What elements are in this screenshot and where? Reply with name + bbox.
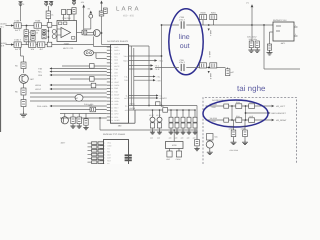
connector PHOENIX pin 7 xyxy=(100,160,104,162)
resistor R200 xyxy=(200,11,207,19)
wire op-amp out xyxy=(77,32,83,34)
ground xyxy=(186,130,191,134)
svg-text:HS_RIGHT: HS_RIGHT xyxy=(276,119,287,122)
svg-text:VD5: VD5 xyxy=(114,62,118,65)
connector J100 pin 20 xyxy=(107,106,111,108)
ground xyxy=(168,130,173,134)
wire xyxy=(23,95,25,100)
capacitor C108 xyxy=(31,36,35,41)
connector J100 pin 6 xyxy=(107,62,111,64)
wire n101 xyxy=(30,100,107,102)
resistor R140 xyxy=(90,64,95,69)
svg-text:LED-B: LED-B xyxy=(35,84,42,87)
wire out right xyxy=(264,68,300,70)
resistor array row 2 xyxy=(88,146,92,148)
wire xyxy=(100,32,101,34)
svg-text:7050T: 7050T xyxy=(64,43,71,46)
resistor R201 xyxy=(210,11,217,19)
svg-text:PHOENIX CTO FRAME: PHOENIX CTO FRAME xyxy=(103,133,126,136)
supply arrow P5 xyxy=(89,11,92,14)
svg-text:MIC+: MIC+ xyxy=(114,106,118,109)
svg-text:7: 7 xyxy=(111,65,112,68)
resistor R106 xyxy=(62,10,66,15)
svg-text:5: 5 xyxy=(111,59,112,62)
capacitor C100 xyxy=(14,20,22,32)
svg-text:21: 21 xyxy=(111,110,113,113)
connector PHOENIX pin 1 xyxy=(100,142,104,144)
svg-text:BKG-HEADSET: BKG-HEADSET xyxy=(272,112,287,115)
connector J100 pin 9 xyxy=(107,71,111,73)
resistor array row 4 xyxy=(88,154,92,156)
wire xyxy=(45,44,94,46)
svg-text:line: line xyxy=(179,33,190,41)
supply arrow P6 xyxy=(100,1,103,4)
annotation ellipse line-out xyxy=(169,9,203,75)
ground xyxy=(70,124,75,128)
svg-text:C101 T: C101 T xyxy=(14,39,22,42)
resistor R104 xyxy=(103,8,107,14)
connector PHOENIX pin 3 xyxy=(100,148,104,150)
resistor stack 6 xyxy=(188,109,190,111)
resistor R100 xyxy=(34,20,41,32)
svg-text:7: 7 xyxy=(104,159,105,162)
connector J100 pin 3 xyxy=(107,52,111,54)
svg-text:5: 5 xyxy=(104,153,105,156)
wire xyxy=(99,118,101,130)
resistor R130 xyxy=(75,94,83,101)
svg-text:AGND: AGND xyxy=(114,119,120,122)
svg-text:2: 2 xyxy=(295,33,296,36)
node HS_LEFT xyxy=(272,105,275,108)
svg-text:out: out xyxy=(180,43,190,50)
svg-text:R09: R09 xyxy=(89,104,92,107)
wire xyxy=(23,83,25,88)
svg-text:470n 2: 470n 2 xyxy=(179,61,185,64)
ground xyxy=(157,130,162,134)
svg-text:R100: R100 xyxy=(35,20,41,23)
capacitor C106 xyxy=(67,10,71,15)
op-amp U100 triangle xyxy=(61,28,71,38)
capacitor C141 xyxy=(196,130,198,140)
ground xyxy=(267,50,273,55)
svg-text:TxD1: TxD1 xyxy=(124,55,128,58)
wire HS row2 xyxy=(206,119,272,121)
connector J100 pin 8 xyxy=(107,68,111,70)
svg-text:4u7 2: 4u7 2 xyxy=(15,29,21,32)
svg-text:4: 4 xyxy=(111,55,112,58)
wire vertical bus A xyxy=(148,46,150,106)
svg-text:7.5L: 7.5L xyxy=(157,76,161,79)
svg-text:1: 1 xyxy=(295,24,296,27)
svg-text:SPK+: SPK+ xyxy=(114,113,119,116)
svg-text:USB+: USB+ xyxy=(114,100,119,103)
svg-text:458 T: 458 T xyxy=(61,142,67,145)
svg-text:AUD-L: AUD-L xyxy=(114,49,119,52)
capacitor C107 xyxy=(47,42,52,47)
wire xyxy=(20,7,22,22)
svg-text:IN R: IN R xyxy=(0,45,5,48)
connector J100 pin 1 xyxy=(107,46,111,48)
resistor R501 xyxy=(236,118,242,123)
wire xyxy=(178,149,180,152)
wire R-out2 xyxy=(134,76,153,78)
wire to phones xyxy=(252,24,273,26)
svg-text:RxD1: RxD1 xyxy=(123,59,127,62)
headset dashed box xyxy=(203,98,297,165)
capacitor C103 xyxy=(24,36,28,42)
resistor stack 4 xyxy=(176,109,178,111)
connector jack box xyxy=(166,142,184,149)
wire rail A xyxy=(129,105,198,107)
svg-text:TDA7050: TDA7050 xyxy=(62,17,71,20)
connector CHAS xyxy=(176,151,181,157)
connector PHOENIX pin 4 xyxy=(100,151,104,153)
wire SCL xyxy=(52,68,107,70)
svg-text:4: 4 xyxy=(104,150,105,153)
resistor R203 xyxy=(210,63,217,68)
connector J100 pin 14 xyxy=(107,87,111,89)
wire rail C xyxy=(100,129,197,131)
wire rail B xyxy=(129,109,196,111)
capacitor C105 xyxy=(47,23,52,28)
svg-text:LED-G: LED-G xyxy=(35,88,42,91)
svg-text:R500: R500 xyxy=(236,101,240,104)
capacitor C210 xyxy=(267,44,271,50)
resistor R142 xyxy=(91,83,96,88)
svg-text:tai nghe: tai nghe xyxy=(237,84,266,93)
resistor R102 xyxy=(72,8,76,15)
wire xyxy=(23,107,25,112)
svg-text:R501: R501 xyxy=(236,115,240,118)
svg-text:L A R A: L A R A xyxy=(116,6,139,13)
wire xyxy=(41,25,57,27)
wire xyxy=(101,16,103,45)
wire xyxy=(244,120,246,130)
svg-text:20: 20 xyxy=(111,106,113,109)
ground xyxy=(180,130,185,134)
ground xyxy=(150,130,155,134)
connector J100 pin 23 xyxy=(107,116,111,118)
wire jack feed xyxy=(173,130,175,142)
wire xyxy=(21,44,28,46)
connector J100 pin 13 xyxy=(107,84,111,86)
connector PHOENIX pin 5 xyxy=(100,154,104,156)
resistor R504 xyxy=(249,104,255,109)
svg-text:A-L: A-L xyxy=(125,104,128,107)
svg-text:12: 12 xyxy=(111,81,113,84)
wire L-out xyxy=(129,65,151,67)
resistor R101 xyxy=(46,11,53,19)
transistor Q102 xyxy=(93,30,100,37)
resistor R202 xyxy=(200,63,207,68)
svg-text:C7 R7: C7 R7 xyxy=(149,114,154,117)
wire n97 xyxy=(30,96,107,98)
connector J100 pin 22 xyxy=(107,113,111,115)
wire HS mid xyxy=(246,112,268,114)
wire xyxy=(21,25,34,27)
wire xyxy=(251,7,253,41)
svg-text:15: 15 xyxy=(111,90,113,93)
resistor array row 1 xyxy=(88,142,92,144)
svg-text:MUTE STD: MUTE STD xyxy=(63,47,74,50)
wire xyxy=(250,40,253,42)
wire xyxy=(47,19,49,45)
svg-text:16: 16 xyxy=(111,94,113,97)
wire xyxy=(20,47,22,56)
resistor R133 xyxy=(77,117,81,124)
svg-text:9: 9 xyxy=(111,71,112,74)
svg-text:19: 19 xyxy=(111,103,113,106)
wire line-out top row xyxy=(162,24,253,26)
svg-text:C506 C508: C506 C508 xyxy=(230,149,239,152)
node net arrow down 2 xyxy=(208,67,210,69)
diode D102 xyxy=(52,30,56,34)
wire xyxy=(169,149,171,152)
connector J100 pin 5 xyxy=(107,59,111,61)
connector J100 pin 10 xyxy=(107,75,111,77)
svg-text:MUTE: MUTE xyxy=(114,65,120,68)
supply arrow P4 xyxy=(82,5,85,8)
resistor R141 xyxy=(90,77,95,82)
svg-text:3: 3 xyxy=(111,52,112,55)
capacitor C140 series xyxy=(163,108,168,113)
wire HS row1 xyxy=(206,105,272,107)
wire LED1 xyxy=(52,84,107,86)
wire down right xyxy=(263,25,265,69)
wire xyxy=(90,19,92,29)
svg-text:AUDIOT: AUDIOT xyxy=(160,97,168,100)
svg-text:1: 1 xyxy=(104,141,105,144)
svg-text:CHAS: CHAS xyxy=(176,158,182,161)
connector PHONES pin right 2 xyxy=(294,35,298,37)
wire rail junction xyxy=(196,106,198,131)
svg-text:MIC-: MIC- xyxy=(114,110,118,113)
connector PHOENIX pin 8 xyxy=(100,163,104,165)
svg-text:R201: R201 xyxy=(211,11,217,14)
wire left-edge scan artifact xyxy=(0,28,1,132)
wire bus vertical R1 xyxy=(130,46,132,106)
svg-text:USB-: USB- xyxy=(114,103,119,106)
ground xyxy=(207,150,213,155)
svg-text:C7 R7: C7 R7 xyxy=(156,114,161,117)
transistor Q101 xyxy=(89,14,93,18)
svg-text:VCHG: VCHG xyxy=(114,97,120,100)
ground xyxy=(83,126,88,130)
connector PHOENIX pin 2 xyxy=(100,145,104,147)
ground xyxy=(192,130,197,134)
resistor R150 xyxy=(156,102,161,106)
svg-text:13: 13 xyxy=(111,84,113,87)
svg-text:DA GROUPE PHILIPS: DA GROUPE PHILIPS xyxy=(107,40,129,43)
svg-text:AUT: AUT xyxy=(124,97,127,100)
svg-text:470n 2: 470n 2 xyxy=(179,19,185,22)
wire mute xyxy=(93,36,95,46)
svg-text:LINE-R: LINE-R xyxy=(209,73,212,80)
capacitor C120 xyxy=(21,100,26,107)
connector J100 pin 21 xyxy=(107,110,111,112)
svg-text:14: 14 xyxy=(111,87,113,90)
resistor stack 3 xyxy=(170,109,172,111)
resistor stack 5 xyxy=(182,109,184,111)
svg-text:6: 6 xyxy=(104,156,105,159)
connector PHOENIX right pads xyxy=(125,154,132,156)
resistor R121 xyxy=(21,88,26,95)
ground xyxy=(233,137,235,140)
connector J100 pin 15 xyxy=(107,91,111,93)
capacitor C101 xyxy=(14,39,22,51)
wire xyxy=(23,69,25,74)
svg-text:GND2: GND2 xyxy=(114,84,119,87)
power +8V P2b xyxy=(49,1,53,6)
wire xyxy=(245,106,247,120)
svg-text:BOOT: BOOT xyxy=(114,94,120,97)
svg-text:100n 100n: 100n 100n xyxy=(249,38,258,41)
capacitor C104 xyxy=(31,31,39,36)
connector J100 pin 4 xyxy=(107,56,111,58)
svg-text:SCL: SCL xyxy=(114,55,118,58)
resistor R110 xyxy=(82,30,87,35)
diode D101 xyxy=(42,34,46,38)
connector PHOENIX pin 6 xyxy=(100,157,104,159)
power +8V P1 xyxy=(19,2,26,7)
resistor stack 2 xyxy=(159,109,161,111)
svg-text:6: 6 xyxy=(111,62,112,65)
transistor Q120 xyxy=(19,74,28,83)
ground xyxy=(77,124,82,128)
svg-text:GND: GND xyxy=(114,46,119,49)
diode D100 xyxy=(42,30,46,34)
connector PHOENIX body xyxy=(104,140,129,165)
wire xyxy=(95,53,97,59)
wire VD5 xyxy=(52,74,107,76)
wire line-out bottom row xyxy=(155,67,226,69)
wire xyxy=(73,14,75,21)
svg-text:R200: R200 xyxy=(201,11,207,14)
svg-text:8: 8 xyxy=(104,162,105,164)
svg-text:PHIL-LARA: PHIL-LARA xyxy=(37,105,48,108)
svg-text:1: 1 xyxy=(111,46,112,49)
resistor array row 3 xyxy=(88,150,92,152)
svg-text:1k: 1k xyxy=(51,14,53,17)
wire SDA xyxy=(52,71,107,73)
connector LINE xyxy=(167,151,172,157)
svg-text:2: 2 xyxy=(104,144,105,147)
resistor R103 xyxy=(99,11,104,16)
resistor array row 6 xyxy=(88,161,92,163)
capacitor C212 xyxy=(255,41,259,48)
wire TDA-OUT2 xyxy=(129,60,155,62)
connector J100 pin 17 xyxy=(107,97,111,99)
op-amp U100 box xyxy=(57,21,77,42)
ground xyxy=(194,147,199,151)
wire xyxy=(101,4,103,12)
svg-text:10: 10 xyxy=(111,75,113,78)
capacitor C130 xyxy=(84,119,88,125)
svg-text:GND: GND xyxy=(107,144,112,147)
svg-text:TSB: TSB xyxy=(38,68,43,71)
wire TDA-OUT1 xyxy=(129,55,162,57)
ground xyxy=(20,112,27,118)
svg-text:24: 24 xyxy=(111,119,113,122)
microphone MIC500 xyxy=(207,134,214,141)
svg-text:8: 8 xyxy=(111,68,112,71)
resistor stack 7 xyxy=(194,109,196,111)
connector J100 pin 11 xyxy=(107,78,111,80)
power +8V P2 xyxy=(44,1,51,6)
resistor array row 5 xyxy=(88,157,92,159)
svg-text:18: 18 xyxy=(111,100,113,103)
wire bus vertical R2 xyxy=(133,48,135,110)
wire PHIL-LARA xyxy=(52,105,107,107)
wire to line-out top xyxy=(129,45,150,47)
connector J100 body xyxy=(111,45,129,124)
svg-text:17: 17 xyxy=(111,97,113,100)
capacitor C102 xyxy=(24,30,32,36)
svg-text:4u7 2: 4u7 2 xyxy=(15,48,21,51)
wire n79 xyxy=(70,78,107,80)
svg-text:SPK-: SPK- xyxy=(114,116,119,119)
ground xyxy=(174,130,179,134)
svg-text:PHONES 3.5V: PHONES 3.5V xyxy=(273,19,287,22)
node W-L arrow xyxy=(129,95,157,97)
connector J100 pin 19 xyxy=(107,103,111,105)
connector J100 pin 7 xyxy=(107,65,111,67)
svg-text:LINE-L: LINE-L xyxy=(209,30,212,36)
svg-text:22: 22 xyxy=(111,113,113,116)
wire LED2 xyxy=(52,88,107,90)
connector J100 pin 2 xyxy=(107,49,111,51)
svg-text:LINE-G: LINE-G xyxy=(208,51,211,58)
resistor R120 xyxy=(21,62,26,69)
wire pin2 feed xyxy=(270,31,274,33)
svg-text:3: 3 xyxy=(104,147,105,150)
wire xyxy=(87,32,94,34)
node HS_RIGHT xyxy=(272,119,275,122)
ground xyxy=(244,137,246,140)
connector PHONES pin right 1 xyxy=(294,26,298,28)
wire n113 xyxy=(60,113,107,115)
wire R-out xyxy=(129,68,151,70)
svg-text:AUD-R: AUD-R xyxy=(130,107,136,110)
wire xyxy=(6,44,15,46)
svg-text:7.5R: 7.5R xyxy=(157,79,162,82)
resistor R131 xyxy=(90,107,96,112)
node net arrow down 1 xyxy=(208,24,210,26)
wire vertical bus B xyxy=(161,25,163,106)
resistor stack 1 xyxy=(152,109,154,111)
wire n110 xyxy=(60,109,107,111)
svg-text:HS_LEFT: HS_LEFT xyxy=(276,105,286,108)
svg-text:AUD-R: AUD-R xyxy=(114,52,120,55)
resistor R107 xyxy=(38,42,45,51)
connector J100 pin 16 xyxy=(107,94,111,96)
wire xyxy=(233,120,235,130)
supply arrow top right xyxy=(251,4,254,7)
ground xyxy=(254,48,260,53)
wire xyxy=(83,8,85,36)
svg-text:TAI-R500: TAI-R500 xyxy=(210,117,218,120)
wire n93 xyxy=(30,92,107,94)
wire xyxy=(231,106,233,120)
node AUDIO-OUT arrow xyxy=(129,97,157,99)
power P3 xyxy=(72,0,76,5)
resistor R105 xyxy=(29,39,36,51)
svg-text:AUD-L: AUD-L xyxy=(130,102,135,105)
resistor R500 xyxy=(236,104,242,109)
resistor R132 xyxy=(71,117,75,124)
diode D103 xyxy=(52,35,56,39)
wire xyxy=(36,44,38,46)
